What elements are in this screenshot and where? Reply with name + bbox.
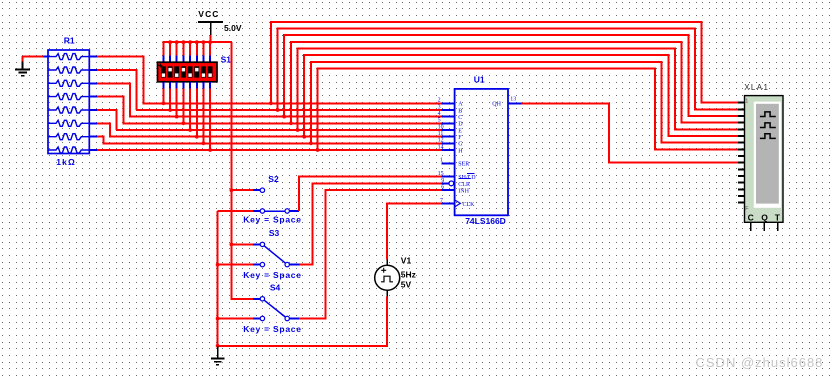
XLA1 waveform glyphs xyxy=(760,112,776,117)
XLA1 bottom pin T xyxy=(777,222,779,231)
svg-text:5Hz: 5Hz xyxy=(401,269,416,279)
svg-text:6: 6 xyxy=(441,184,444,190)
U1 pin 14 stub (input H) xyxy=(441,149,454,151)
XLA1 terminal 4 stub xyxy=(738,122,745,124)
switch S3 output lead xyxy=(290,264,300,266)
S1 bottom pin 2 wire xyxy=(169,82,171,89)
S1 top pin 5 wire xyxy=(189,42,191,55)
wire R1 out 4 to bus 4 xyxy=(97,97,123,124)
svg-text:1: 1 xyxy=(440,158,443,164)
U1 pin 13 stub QH output xyxy=(508,102,522,104)
resistor R1 element 8 xyxy=(48,147,89,153)
junction ground rail / S3 xyxy=(216,263,220,267)
S1 bottom pin 7 wire xyxy=(202,82,204,89)
V1 bottom pin wire xyxy=(386,290,388,296)
svg-text:A: A xyxy=(458,102,463,108)
junction bus 4 / nest riser xyxy=(289,121,293,125)
svg-text:E: E xyxy=(458,128,462,134)
R1 output lead 1 xyxy=(89,56,97,58)
power VCC symbol xyxy=(198,21,223,23)
S1 top pin 8 wire xyxy=(209,42,211,55)
svg-text:14: 14 xyxy=(438,144,444,150)
wire R1 out 1 to bus 1 xyxy=(97,57,143,104)
XLA1 terminal 7 stub xyxy=(738,142,745,144)
junction bus 3 / nest riser xyxy=(282,115,286,119)
wire VCC stem xyxy=(210,35,212,43)
S1 top pin 7 wire xyxy=(202,42,204,55)
junction bus 6 / nest riser xyxy=(302,135,306,139)
XLA1 terminal 13 stub xyxy=(738,182,745,184)
S1 polarity mark xyxy=(158,63,162,67)
svg-text:4: 4 xyxy=(438,111,441,117)
junction top bus / S1 pin 6 xyxy=(195,40,199,44)
R1 output lead 2 xyxy=(89,69,97,71)
svg-text:11: 11 xyxy=(438,131,444,137)
wire ground rail xyxy=(217,211,219,346)
svg-text:5V: 5V xyxy=(401,279,412,289)
XLA1 terminal 8 stub xyxy=(738,148,745,150)
svg-text:Key = Space: Key = Space xyxy=(243,324,302,334)
U1 pin 6 stub INH xyxy=(441,189,454,191)
ground GND1 xyxy=(22,62,24,70)
junction bus 8 / nest riser xyxy=(316,148,320,152)
XLA1 screen xyxy=(754,102,781,208)
bus wire 4 to U1 pin xyxy=(122,122,441,124)
S1 slot 6 xyxy=(194,66,199,77)
svg-text:H: H xyxy=(458,148,463,154)
XLA1 terminal 9 stub xyxy=(738,155,745,157)
svg-text:U1: U1 xyxy=(474,75,485,85)
U1 pin 1 stub SER xyxy=(441,162,454,164)
svg-text:74LS166D: 74LS166D xyxy=(465,216,506,226)
wire V1 to ground rail xyxy=(218,345,389,347)
S1 bottom pin 3 wire xyxy=(176,82,178,89)
wire VCC top bus xyxy=(163,41,233,43)
XLA1 terminal 16 stub xyxy=(738,202,745,204)
junction S1 pin 5 / bus 5 xyxy=(188,128,192,132)
XLA1 terminal 15 stub xyxy=(738,195,745,197)
junction bus 1 / nest riser xyxy=(269,101,273,105)
wire bus 8 to XLA1 channel 8 xyxy=(318,69,740,150)
svg-text:1: 1 xyxy=(745,98,748,104)
junction ground rail / S4 xyxy=(216,317,220,321)
bus wire 6 to U1 pin xyxy=(109,136,441,138)
S1 bottom pin 1 wire xyxy=(162,82,164,89)
svg-text:C: C xyxy=(458,115,462,121)
wire R1 out 6 to bus 6 xyxy=(97,123,110,136)
U1 pin 2 stub (input A) xyxy=(441,102,454,104)
S1 slot 7 xyxy=(201,66,206,77)
U1 pin 10 stub (input E) xyxy=(441,129,454,131)
S1 top pin 6 wire xyxy=(196,42,198,55)
svg-text:CLR: CLR xyxy=(458,182,470,188)
junction S1 pin 4 / bus 4 xyxy=(182,121,186,125)
svg-text:13: 13 xyxy=(510,96,516,102)
junction S1 pin 1 / bus 1 xyxy=(162,101,166,105)
resistor pack R1 body xyxy=(48,50,89,154)
svg-text:3: 3 xyxy=(438,104,441,110)
svg-text:V1: V1 xyxy=(401,255,412,265)
svg-text:CSDN @zhusl6688: CSDN @zhusl6688 xyxy=(696,355,824,370)
junction bus 5 / nest riser xyxy=(296,128,300,132)
svg-text:INH: INH xyxy=(458,188,469,194)
switch S2 upper throw wire xyxy=(231,189,253,191)
wire VCC rail to S2 S3 S4 xyxy=(231,42,253,299)
wire R1 out 7 to bus 7 xyxy=(97,137,103,144)
S1 top pin 2 wire xyxy=(169,42,171,55)
svg-text:Key = Space: Key = Space xyxy=(243,270,302,280)
R1 output lead 5 xyxy=(89,109,97,111)
S1 slot 8 xyxy=(208,66,213,77)
logic analyzer XLA1 body xyxy=(745,96,784,223)
wire S4 to U1 INH xyxy=(299,190,442,319)
wire bus 1 to XLA1 channel 1 xyxy=(271,22,740,103)
R1 output lead 4 xyxy=(89,96,97,98)
switch S4 terminals and lever xyxy=(260,297,264,301)
svg-text:C: C xyxy=(748,212,754,222)
XLA1 terminal 12 stub xyxy=(738,175,745,177)
wire bus 4 to XLA1 channel 4 xyxy=(291,42,740,123)
svg-text:1kΩ: 1kΩ xyxy=(56,157,76,167)
wire R1 out 8 (bus 8 start) xyxy=(97,149,105,151)
S1 top pin 1 wire xyxy=(162,42,164,55)
switch S3 lower throw wire xyxy=(218,264,253,266)
wire R1 out 5 to bus 5 xyxy=(97,110,117,130)
S1 slot 1 xyxy=(161,66,166,77)
junction top bus / S1 pin 4 xyxy=(182,40,186,44)
svg-text:9: 9 xyxy=(441,178,444,184)
V1 top pin wire to U1 CLK xyxy=(386,260,388,266)
R1 output lead 8 xyxy=(89,149,97,151)
svg-text:5.0V: 5.0V xyxy=(224,23,242,33)
U1 pin 15 stub SH/LD xyxy=(441,176,454,178)
wire bus 2 to XLA1 channel 2 xyxy=(278,29,740,110)
wire R1 out 2 to bus 2 xyxy=(97,70,137,110)
wire S3 to U1 CLR xyxy=(299,183,441,264)
XLA1 terminal 3 stub xyxy=(738,115,745,117)
resistor R1 element 6 xyxy=(48,120,89,126)
op-amp-style IC U1 74LS166D body xyxy=(455,89,508,215)
ground GND2 xyxy=(217,346,219,359)
svg-text:2: 2 xyxy=(438,98,441,104)
junction bus 2 / nest riser xyxy=(276,108,280,112)
bus wire 1 to U1 pin xyxy=(143,102,442,104)
XLA1 terminal 1 stub xyxy=(738,102,745,104)
wire bus 3 to XLA1 channel 3 xyxy=(284,35,739,116)
XLA1 bottom pin C xyxy=(750,222,752,231)
resistor R1 element 4 xyxy=(48,94,89,100)
bus wire 7 to U1 pin xyxy=(102,142,441,144)
junction top bus / S1 pin 3 xyxy=(175,40,179,44)
XLA1 terminal 6 stub xyxy=(738,135,745,137)
S1 slot 5 xyxy=(188,66,193,77)
XLA1 terminal 11 stub xyxy=(738,168,745,170)
XLA1 terminal 10 stub xyxy=(738,162,745,164)
resistor R1 element 5 xyxy=(48,107,89,113)
XLA1 terminal 2 stub xyxy=(738,108,745,110)
wire R1 common to ground xyxy=(23,56,44,58)
wire QH to XLA1 channel 10 xyxy=(522,103,740,162)
svg-text:CLK: CLK xyxy=(463,202,476,208)
svg-text:QH: QH xyxy=(492,102,501,108)
XLA1 terminal 14 stub xyxy=(738,188,745,190)
junction S1 pin 7 / bus 7 xyxy=(202,141,206,145)
resistor R1 element 7 xyxy=(48,134,89,140)
junction top bus / S1 pin 5 xyxy=(188,40,192,44)
junction bus 7 / nest riser xyxy=(309,141,313,145)
svg-text:S1: S1 xyxy=(221,54,232,64)
S1 top pin 3 wire xyxy=(176,42,178,55)
junction VCC rail / S3 xyxy=(230,243,234,247)
switch S4 upper throw wire xyxy=(231,298,253,300)
junction S1 pin 3 / bus 3 xyxy=(175,115,179,119)
bus wire 8 to U1 pin xyxy=(97,149,441,151)
bus wire 3 to U1 pin xyxy=(129,116,441,118)
svg-text:B: B xyxy=(458,108,462,114)
junction ground rail / ground symbol xyxy=(216,344,220,348)
svg-text:S2: S2 xyxy=(268,174,279,184)
junction S1 pin 6 / bus 6 xyxy=(195,135,199,139)
svg-text:R1: R1 xyxy=(64,35,75,45)
wire R1 out 3 to bus 3 xyxy=(97,83,130,116)
resistor R1 element 3 xyxy=(48,80,89,86)
U1 pin 3 stub (input B) xyxy=(441,109,454,111)
switch S2 terminals and lever xyxy=(260,188,264,192)
U1 pin 4 stub (input C) xyxy=(441,116,454,118)
svg-text:Key = Space: Key = Space xyxy=(243,214,302,224)
junction top bus / S1 pin 7 xyxy=(202,40,206,44)
R1 output lead 3 xyxy=(89,82,97,84)
U1 pin 12 stub (input G) xyxy=(441,142,454,144)
junction S1 pin 8 / bus 8 xyxy=(208,148,212,152)
S1 bottom pin 8 wire xyxy=(209,82,211,89)
junction top bus / S1 pin 8 xyxy=(208,40,212,44)
R1 common lead (left pin) xyxy=(44,56,49,58)
switch S1 body xyxy=(158,62,218,82)
wire bus 7 to XLA1 channel 7 xyxy=(311,62,740,143)
svg-text:S3: S3 xyxy=(269,228,280,238)
U1 pin 9 stub CLR with bubble xyxy=(441,182,448,184)
svg-text:G: G xyxy=(458,142,463,148)
resistor R1 element 1 xyxy=(48,54,89,60)
svg-text:VCC: VCC xyxy=(198,9,219,19)
resistor R1 element 2 xyxy=(48,67,89,73)
svg-text:10: 10 xyxy=(438,124,444,130)
XLA1 bottom pin Q xyxy=(763,222,765,231)
U1 pin 11 stub (input F) xyxy=(441,136,454,138)
switch S2 lower throw wire xyxy=(218,210,253,212)
switch S4 lower throw wire xyxy=(218,318,253,320)
junction top bus / S1 pin 2 xyxy=(168,40,172,44)
voltage source V1 body xyxy=(375,265,400,290)
svg-text:D: D xyxy=(458,122,463,128)
S1 bottom pin 6 wire xyxy=(196,82,198,89)
bus wire 2 to U1 pin xyxy=(136,109,442,111)
switch S2 output lead xyxy=(290,210,299,212)
switch S3 terminals and lever xyxy=(260,242,264,246)
wire S2 to U1 SH/LD xyxy=(299,177,442,211)
XLA1 terminal 5 stub xyxy=(738,128,745,130)
U1 pin 7 stub CLK with clock triangle xyxy=(441,202,454,204)
wire bus 6 to XLA1 channel 6 xyxy=(304,55,739,137)
U1 pin 5 stub (input D) xyxy=(441,122,454,124)
svg-text:XLA1: XLA1 xyxy=(744,83,769,92)
R1 output lead 6 xyxy=(89,122,97,124)
S1 slot 4 xyxy=(181,66,186,77)
S1 slot 3 xyxy=(174,66,179,77)
junction VCC rail / S2 xyxy=(230,188,234,192)
svg-text:SER: SER xyxy=(458,162,469,168)
svg-text:S4: S4 xyxy=(270,283,281,293)
S1 slot 2 xyxy=(168,66,173,77)
junction S1 pin 2 / bus 2 xyxy=(168,108,172,112)
wire bus 5 to XLA1 channel 5 xyxy=(298,49,740,130)
switch S3 upper throw wire xyxy=(231,243,253,245)
S1 bottom pin 5 wire xyxy=(189,82,191,89)
svg-text:T: T xyxy=(775,212,781,222)
R1 output lead 7 xyxy=(89,136,97,138)
S1 top pin 4 wire xyxy=(182,42,184,55)
svg-text:12: 12 xyxy=(438,138,444,144)
svg-text:5: 5 xyxy=(438,118,441,124)
S1 bottom pin 4 wire xyxy=(182,82,184,89)
svg-text:Q: Q xyxy=(761,212,768,222)
bus wire 5 to U1 pin xyxy=(116,129,442,131)
switch S4 output lead xyxy=(290,318,299,320)
